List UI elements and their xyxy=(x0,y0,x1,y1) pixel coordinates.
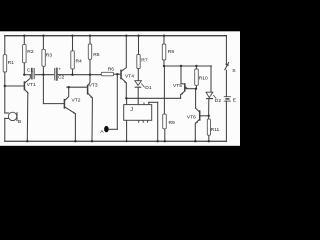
wire relay step up xyxy=(148,102,150,104)
svg-text:C2: C2 xyxy=(58,75,65,81)
wire VT4 emitter down xyxy=(125,83,127,99)
node V+/R2 xyxy=(23,35,25,37)
wire relay step horizontal xyxy=(149,101,158,103)
svg-text:VT3: VT3 xyxy=(89,83,98,89)
wire R8 bottom to node xyxy=(163,60,165,66)
svg-text:D2: D2 xyxy=(215,98,222,104)
wire to VT2 base horizontal xyxy=(43,103,64,105)
wire R10 top xyxy=(195,66,197,69)
svg-text:+: + xyxy=(58,67,61,72)
wire VT5 base drop xyxy=(180,66,182,84)
wire step down to rail xyxy=(157,102,159,141)
node R2/VT1 collector xyxy=(23,74,25,76)
microphone B xyxy=(8,112,17,121)
svg-text:R3: R3 xyxy=(46,53,53,59)
wire VT2C to VT3 base xyxy=(67,86,87,88)
transistor VT6 xyxy=(195,108,200,123)
svg-text:J: J xyxy=(130,107,133,113)
wire VT5 emitter riser xyxy=(180,95,182,99)
node R5/VT3 collector xyxy=(89,74,91,76)
node V+/R8 xyxy=(163,35,165,37)
resistor R7 xyxy=(137,55,140,69)
wire R5 top xyxy=(89,36,91,44)
wire R2 bottom xyxy=(23,63,25,75)
wire emitter rail VT4-VT5 xyxy=(126,97,180,99)
wire R6 right to VT4 base xyxy=(114,73,121,75)
node GND/R9 xyxy=(164,140,166,142)
svg-text:VT1: VT1 xyxy=(27,82,36,88)
svg-text:R2: R2 xyxy=(27,49,34,55)
diode D2 (LED) xyxy=(206,92,216,98)
wire relay bottom terminal xyxy=(126,120,128,141)
node V+/R7 xyxy=(137,35,139,37)
wire VT6 collector riser xyxy=(195,89,197,109)
wire D1 to relay box xyxy=(137,88,139,105)
node V+/R3 xyxy=(42,35,44,37)
capacitor C2 xyxy=(54,67,61,81)
svg-text:C1: C1 xyxy=(27,68,34,74)
transistor VT3 xyxy=(88,82,93,98)
node R3/C1-C2 xyxy=(42,74,44,76)
wire VT2 emitter to rail xyxy=(74,114,76,142)
node R4 bottom xyxy=(71,74,73,76)
wire relay top terminal xyxy=(126,98,128,104)
wire R7 to D1 xyxy=(137,69,139,81)
wire D2 drop from bias xyxy=(210,66,212,92)
svg-text:VT4: VT4 xyxy=(125,73,134,79)
wire VT3 emitter to rail xyxy=(91,98,93,141)
resistor R6 horizontal xyxy=(101,72,113,76)
wire battery to rail xyxy=(225,101,227,141)
node GND/VT1 emitter xyxy=(26,140,28,142)
wire VT2 collector vertical xyxy=(68,87,70,96)
node R10/VT5 collector/VT6 collector xyxy=(195,88,197,90)
relay box J xyxy=(124,105,152,121)
transistor VT2 xyxy=(64,97,75,114)
left rail upper xyxy=(4,36,6,55)
svg-text:B: B xyxy=(18,119,21,125)
node V+/R5 xyxy=(89,35,91,37)
wire bias horizontal y66 xyxy=(164,65,212,67)
mic stub top xyxy=(5,112,9,114)
resistor R11 xyxy=(207,119,210,135)
svg-text:R4: R4 xyxy=(76,59,83,65)
left rail mid (below R1) xyxy=(4,72,6,113)
svg-text:R9: R9 xyxy=(169,120,176,126)
node R8/R9 xyxy=(163,65,165,67)
relay bottom pin stubs xyxy=(138,120,140,122)
wire R10 bottom xyxy=(195,85,197,88)
wire VT5 collector xyxy=(185,88,196,90)
node GND/VT6 emitter xyxy=(194,140,196,142)
wire VT1 base xyxy=(5,85,24,87)
top rail xyxy=(5,35,227,37)
left rail lower xyxy=(4,118,6,141)
node GND/relay xyxy=(126,140,128,142)
resistor R9 xyxy=(163,114,167,129)
wire R2 top xyxy=(23,36,25,45)
svg-text:D1: D1 xyxy=(145,85,152,91)
node VT5 base xyxy=(180,65,182,67)
capacitor C1 xyxy=(31,68,35,80)
wire VT4 collector to rail xyxy=(125,36,127,68)
wire R11 bottom xyxy=(208,135,210,141)
wire VT6 emitter to rail xyxy=(194,123,196,141)
node V+/VT4 collector xyxy=(125,35,127,37)
mic stub bottom xyxy=(5,117,9,119)
svg-text:R5: R5 xyxy=(93,52,100,58)
transistor VT4 xyxy=(121,68,127,84)
diode D1 xyxy=(135,81,145,88)
bottom rail xyxy=(5,140,227,142)
wire VT4 base node down to A xyxy=(116,74,118,129)
wire A horizontal xyxy=(109,128,117,130)
battery E xyxy=(224,97,231,101)
svg-text:VT5: VT5 xyxy=(173,83,182,89)
white scan area xyxy=(0,31,240,146)
wire VT1 emitter to rail xyxy=(26,94,29,141)
transistor VT1 xyxy=(24,75,30,94)
wire C2 to R6 xyxy=(58,74,102,76)
svg-text:R10: R10 xyxy=(199,75,208,81)
wire node to VT2 base vertical xyxy=(42,75,44,104)
node R1/VT1 base xyxy=(4,85,6,87)
wire R3 top xyxy=(42,36,44,50)
wire R3 bottom xyxy=(42,66,44,74)
resistor R5 xyxy=(88,44,91,59)
resistor R3 xyxy=(42,49,45,66)
node GND/VT2 emitter xyxy=(74,140,76,142)
wire R7 top xyxy=(138,36,140,55)
svg-text:R11: R11 xyxy=(211,127,220,133)
wire R4 top xyxy=(72,36,74,51)
wire R5 bottom xyxy=(89,59,91,74)
wire switch to battery xyxy=(225,70,227,96)
svg-text:VT2: VT2 xyxy=(72,98,81,104)
node V+/R4 xyxy=(71,35,73,37)
node GND/R11 xyxy=(208,140,210,142)
svg-text:R1: R1 xyxy=(8,60,15,66)
relay top pin stub xyxy=(143,103,145,105)
wire D2 cathode down to node and R11 xyxy=(208,99,210,119)
wire node down through to R9 xyxy=(163,66,165,114)
wire R8 top xyxy=(163,36,165,44)
svg-text:R7: R7 xyxy=(141,58,148,64)
node R6/VT4 base/point A xyxy=(116,73,118,75)
resistor R1 xyxy=(3,55,6,72)
switch blade xyxy=(225,63,229,70)
test point A xyxy=(104,126,109,132)
node GND/VT3 emitter xyxy=(91,140,93,142)
node VT4 emitter/relay xyxy=(125,97,127,99)
node D2/VT6 base/R11 xyxy=(208,115,210,117)
wire VT3 collector xyxy=(89,75,91,82)
transistor VT5 xyxy=(180,83,187,95)
wire C1 to C2 xyxy=(35,74,54,76)
resistor R2 xyxy=(23,44,27,62)
resistor R4 xyxy=(71,51,75,69)
node VT2 collector/VT3 base xyxy=(68,86,70,88)
node R10 top xyxy=(195,65,197,67)
resistor R10 xyxy=(195,69,199,85)
resistor R8 xyxy=(162,44,166,60)
wire R9 bottom to rail xyxy=(164,129,166,141)
wire VT6 base to node xyxy=(200,115,209,117)
wire switch top xyxy=(225,36,227,65)
wire R4 bottom xyxy=(72,69,74,75)
wire main horizontal seg1 xyxy=(24,74,31,76)
svg-text:VT6: VT6 xyxy=(187,114,196,120)
svg-text:R6: R6 xyxy=(108,67,115,73)
svg-text:R8: R8 xyxy=(168,49,175,55)
node GND/contact wire xyxy=(157,140,159,142)
